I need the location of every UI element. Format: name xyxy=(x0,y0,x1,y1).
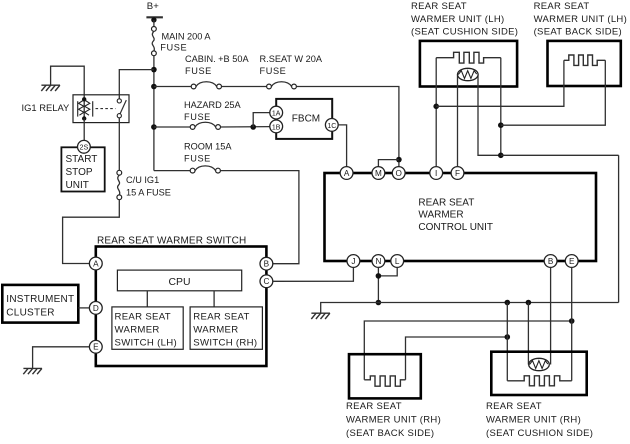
svg-text:(SEAT BACK SIDE): (SEAT BACK SIDE) xyxy=(534,26,622,37)
svg-text:F: F xyxy=(455,169,460,178)
svg-text:B: B xyxy=(264,260,270,269)
start stop unit box xyxy=(61,147,104,191)
wire thermostat to F xyxy=(457,75,459,167)
svg-text:START: START xyxy=(66,154,98,165)
wire coil to 2S xyxy=(83,119,85,141)
svg-text:(SEAT BACK SIDE): (SEAT BACK SIDE) xyxy=(346,428,434,439)
svg-text:FUSE: FUSE xyxy=(160,43,187,53)
fuse CABIN +B 50A xyxy=(191,82,221,89)
svg-text:C: C xyxy=(263,277,269,286)
svg-text:15 A FUSE: 15 A FUSE xyxy=(126,187,171,197)
fuse MAIN 200 A xyxy=(152,27,157,56)
svg-text:WARMER UNIT (RH): WARMER UNIT (RH) xyxy=(346,414,441,425)
svg-text:1C: 1C xyxy=(327,123,336,130)
heater element RH back xyxy=(364,376,405,386)
wire main vertical bus xyxy=(153,56,155,171)
pin M (control unit) xyxy=(372,167,385,180)
label C/U IG1 15 A FUSE xyxy=(126,175,171,197)
svg-text:(SEAT CUSHION SIDE): (SEAT CUSHION SIDE) xyxy=(411,26,518,37)
wire R.SEAT fuse to M/O xyxy=(296,87,399,167)
label MAIN 200 A FUSE xyxy=(160,31,211,52)
wire RH back right pin xyxy=(406,337,508,380)
label REAR SEAT WARMER UNIT (RH) CUSHION xyxy=(486,401,593,439)
pin 1C xyxy=(325,119,338,132)
svg-text:C/U IG1: C/U IG1 xyxy=(126,175,159,185)
svg-text:CABIN. +B 50A: CABIN. +B 50A xyxy=(185,54,249,64)
svg-text:L: L xyxy=(395,257,400,266)
FBCM box xyxy=(276,99,332,139)
svg-text:WARMER: WARMER xyxy=(115,325,160,336)
thermostat LH cushion xyxy=(458,68,479,80)
pin 1B xyxy=(270,120,283,133)
wire heater to I xyxy=(435,58,437,167)
pin N (control unit) xyxy=(372,255,385,268)
rear seat warmer unit LH back box xyxy=(548,41,621,86)
junction dot relay tap xyxy=(151,67,157,73)
relay coil xyxy=(78,95,93,121)
pin E (switch) xyxy=(89,340,102,353)
pin E (control unit) xyxy=(565,255,578,268)
rear seat warmer unit LH cushion box xyxy=(420,41,517,87)
pin F (control unit) xyxy=(451,167,464,180)
svg-text:R.SEAT W 20A: R.SEAT W 20A xyxy=(260,54,323,64)
svg-text:1A: 1A xyxy=(272,111,281,118)
wire right side riser xyxy=(618,155,620,302)
svg-text:REAR SEAT: REAR SEAT xyxy=(418,197,474,208)
svg-text:(SEAT CUSHION SIDE): (SEAT CUSHION SIDE) xyxy=(486,428,593,439)
junction dot heater/back link xyxy=(498,122,504,128)
svg-text:REAR SEAT WARMER SWITCH: REAR SEAT WARMER SWITCH xyxy=(97,235,246,246)
pin A (switch) xyxy=(89,257,102,270)
wire branch to 1A xyxy=(253,113,270,127)
junction dot ground x507 xyxy=(505,300,511,306)
svg-text:FUSE: FUSE xyxy=(260,66,287,76)
svg-text:J: J xyxy=(351,257,355,266)
svg-text:A: A xyxy=(344,169,350,178)
junction dot RH back/cushion link xyxy=(505,334,511,340)
svg-text:STOP: STOP xyxy=(66,167,93,178)
wire RH cushion heater left up xyxy=(506,303,508,381)
svg-text:B+: B+ xyxy=(147,1,159,12)
pin J (control unit) xyxy=(347,255,360,268)
wire E to ground xyxy=(33,347,90,369)
wire heater right down xyxy=(500,58,502,156)
svg-text:CPU: CPU xyxy=(169,277,191,288)
svg-text:WARMER UNIT (LH): WARMER UNIT (LH) xyxy=(411,14,504,25)
junction dot M/O branch xyxy=(396,157,402,163)
pin 1A xyxy=(270,106,283,119)
svg-text:FUSE: FUSE xyxy=(185,66,212,76)
junction dot I link xyxy=(433,104,439,110)
svg-text:REAR SEAT: REAR SEAT xyxy=(486,401,542,412)
CPU box xyxy=(117,270,241,291)
pin B (control unit) xyxy=(544,255,557,268)
heater element LH cushion xyxy=(436,52,501,63)
label REAR SEAT WARMER SWITCH (RH) xyxy=(193,312,257,349)
svg-text:M: M xyxy=(375,169,382,178)
pin L (control unit) xyxy=(391,255,404,268)
fuse C/U IG1 15 A xyxy=(117,170,122,199)
junction dot ground x528 xyxy=(526,300,532,306)
svg-text:FBCM: FBCM xyxy=(292,114,320,125)
svg-text:SWITCH (RH): SWITCH (RH) xyxy=(193,338,257,349)
relay switch contacts xyxy=(117,95,126,123)
rear seat warmer control unit box xyxy=(325,173,597,261)
label REAR SEAT WARMER SWITCH (LH) xyxy=(115,312,177,349)
svg-text:2S: 2S xyxy=(80,143,89,152)
label HAZARD 25A FUSE xyxy=(184,100,242,122)
svg-text:WARMER: WARMER xyxy=(193,325,238,336)
junction dot N/L xyxy=(376,273,382,279)
svg-text:E: E xyxy=(93,343,99,352)
pin I (control unit) xyxy=(430,167,443,180)
wire cluster to D xyxy=(78,307,89,309)
svg-text:MAIN 200 A: MAIN 200 A xyxy=(162,31,212,41)
label REAR SEAT WARMER CONTROL UNIT xyxy=(418,197,493,233)
wire B+ to MAIN fuse xyxy=(153,20,155,27)
svg-text:O: O xyxy=(396,169,402,178)
pin A (control unit) xyxy=(340,167,353,180)
wire C/U fuse to switch pin A xyxy=(63,200,120,264)
relay IG1 box xyxy=(73,95,129,123)
label START STOP UNIT xyxy=(66,154,98,191)
wire RH back left pin to E line xyxy=(364,321,571,380)
wire CABIN to R.SEAT fuse xyxy=(222,86,267,88)
svg-text:E: E xyxy=(569,257,575,266)
label REAR SEAT WARMER UNIT (LH) CUSHION xyxy=(411,1,518,37)
svg-text:D: D xyxy=(93,304,99,313)
label R.SEAT W 20A FUSE xyxy=(260,54,323,76)
thermostat RH cushion xyxy=(529,358,550,370)
wire ground run upper xyxy=(501,154,619,156)
svg-text:IG1 RELAY: IG1 RELAY xyxy=(22,102,71,113)
rear seat warmer unit RH back box xyxy=(349,354,421,398)
wire E to RH heater xyxy=(571,267,573,380)
svg-text:REAR SEAT: REAR SEAT xyxy=(115,312,171,323)
junction dot hazard fuse tap xyxy=(151,124,157,130)
connector 2S xyxy=(78,140,91,153)
pin D (switch) xyxy=(89,302,102,315)
wire branch to M xyxy=(378,160,399,167)
fuse HAZARD 25A xyxy=(190,122,220,129)
svg-text:UNIT: UNIT xyxy=(66,180,89,191)
pin C (switch) xyxy=(260,275,273,288)
svg-text:REAR SEAT: REAR SEAT xyxy=(346,401,402,412)
wire LH back right pin xyxy=(501,60,606,125)
wire ground run xyxy=(321,303,619,314)
svg-text:B: B xyxy=(548,257,554,266)
node B+ terminal xyxy=(146,17,163,22)
svg-text:FUSE: FUSE xyxy=(184,112,211,122)
svg-text:SWITCH (LH): SWITCH (LH) xyxy=(115,338,177,349)
wire relay to C/U fuse xyxy=(118,123,120,171)
node B+ label xyxy=(147,1,159,12)
svg-text:REAR SEAT: REAR SEAT xyxy=(411,1,467,12)
svg-text:A: A xyxy=(93,259,99,268)
junction dot ground link xyxy=(498,153,504,159)
pin B (switch) xyxy=(260,257,273,270)
svg-text:CONTROL UNIT: CONTROL UNIT xyxy=(418,222,493,233)
label REAR SEAT WARMER SWITCH xyxy=(97,235,246,246)
wire C to J xyxy=(273,267,354,281)
label ROOM 15A FUSE xyxy=(184,142,232,164)
svg-text:WARMER: WARMER xyxy=(418,210,463,221)
svg-text:ROOM 15A: ROOM 15A xyxy=(184,142,232,152)
wire CPU to RH switch xyxy=(213,291,215,307)
wire RH cushion thermostat left up xyxy=(527,303,529,365)
instrument cluster box xyxy=(2,285,78,323)
svg-text:HAZARD 25A: HAZARD 25A xyxy=(184,100,242,110)
junction dot 1A branch xyxy=(250,124,256,130)
svg-text:REAR SEAT: REAR SEAT xyxy=(193,312,249,323)
ground G1 (relay coil) xyxy=(41,85,60,91)
wire B to RH thermostat xyxy=(550,267,552,364)
svg-text:INSTRUMENT: INSTRUMENT xyxy=(6,294,74,305)
ground G3 (control unit) xyxy=(311,313,330,319)
wire L join N xyxy=(378,267,397,276)
wire HAZARD fuse to 1B xyxy=(221,126,270,128)
label INSTRUMENT CLUSTER xyxy=(6,294,74,319)
label REAR SEAT WARMER UNIT (RH) BACK xyxy=(346,401,441,439)
svg-text:FUSE: FUSE xyxy=(184,154,211,164)
svg-text:CLUSTER: CLUSTER xyxy=(6,308,54,319)
wire 1C to A xyxy=(338,125,346,167)
wire bus to ROOM fuse xyxy=(154,170,190,172)
wire ground jog to relay coil xyxy=(51,66,85,95)
label FBCM xyxy=(292,114,320,125)
fuse ROOM 15A xyxy=(190,166,220,173)
heater element LH back xyxy=(564,55,605,65)
heater element RH cushion xyxy=(507,376,571,386)
label CABIN. +B 50A FUSE xyxy=(185,54,249,76)
svg-text:N: N xyxy=(375,257,381,266)
label REAR SEAT WARMER UNIT (LH) BACK xyxy=(534,1,627,37)
wire CPU to LH switch xyxy=(146,291,148,307)
svg-text:WARMER UNIT (RH): WARMER UNIT (RH) xyxy=(486,414,581,425)
fuse R.SEAT W 20A xyxy=(267,82,297,89)
svg-text:I: I xyxy=(435,169,437,178)
rear seat warmer unit RH cushion box xyxy=(491,352,586,395)
wire bus to HAZARD fuse xyxy=(154,126,190,128)
svg-text:REAR SEAT: REAR SEAT xyxy=(534,1,590,12)
switch RH box xyxy=(190,307,262,349)
wire N down xyxy=(377,267,379,302)
relay dashed link xyxy=(96,108,116,110)
wire bus to relay switch xyxy=(119,70,154,95)
label IG1 RELAY xyxy=(22,102,71,113)
svg-text:1B: 1B xyxy=(272,124,281,131)
wire thermostat right down xyxy=(478,75,501,156)
switch LH box xyxy=(112,307,183,349)
wire LH back left pin xyxy=(436,60,564,106)
junction dot N at ground run xyxy=(376,300,382,306)
label CPU xyxy=(169,277,191,288)
junction dot E link xyxy=(569,318,575,324)
svg-text:WARMER UNIT (LH): WARMER UNIT (LH) xyxy=(534,14,627,25)
pin O (control unit) xyxy=(392,167,405,180)
rear seat warmer switch box xyxy=(96,247,267,367)
junction dot cabin fuse tap xyxy=(151,84,157,90)
wire bus to CABIN fuse xyxy=(154,86,191,88)
wire ROOM fuse to switch pin B xyxy=(220,171,299,264)
ground G2 (switch E) xyxy=(23,368,42,374)
